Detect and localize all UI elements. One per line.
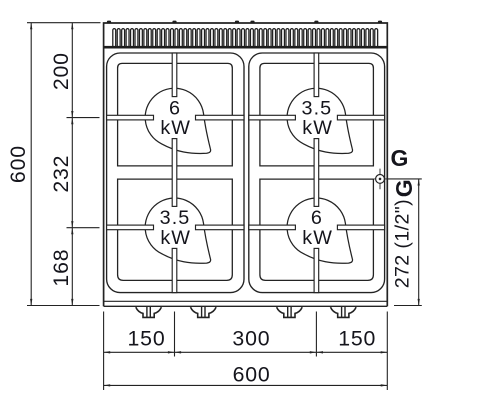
svg-text:150: 150 xyxy=(338,326,376,350)
top-right inner frame xyxy=(260,63,374,165)
dimension line 272 right xyxy=(418,179,420,306)
right column support bar bottom xyxy=(314,248,319,292)
left column support bar middle xyxy=(172,139,177,207)
svg-text:272 (1/2"): 272 (1/2") xyxy=(392,199,414,288)
extension line bottom-left xyxy=(27,305,100,307)
extension line bottom at burner column right xyxy=(315,312,317,357)
mounting foot 1 xyxy=(136,307,162,317)
mounting foot 2 xyxy=(191,307,217,317)
extension line left at burner row 1 xyxy=(67,117,100,119)
svg-text:168: 168 xyxy=(49,249,73,287)
svg-text:150: 150 xyxy=(128,326,166,350)
bottom row support bar left-outer xyxy=(107,225,154,230)
top row support bar right-outer xyxy=(337,115,384,120)
mounting foot 3 xyxy=(277,307,303,317)
right column support bar middle xyxy=(314,139,319,207)
extension line bottom at burner column left xyxy=(174,312,176,357)
gas connection point G xyxy=(371,169,390,190)
extension line right at gas point xyxy=(387,178,422,180)
svg-text:G: G xyxy=(391,145,409,171)
extension line top-left xyxy=(27,22,101,24)
burner 6 kW top-left head xyxy=(145,88,210,153)
svg-text:kW: kW xyxy=(160,227,191,249)
burner 3.5 kW bottom-left head xyxy=(145,198,210,263)
burner 3.5 kW top-right head xyxy=(287,88,352,153)
svg-text:kW: kW xyxy=(160,117,191,139)
dimension line 200/232/168 left xyxy=(71,23,73,306)
bottom row support bar right-inner xyxy=(249,225,296,230)
vent comb strip ribs xyxy=(113,29,378,48)
extension line right at body bottom xyxy=(394,305,422,307)
svg-text:6: 6 xyxy=(311,207,323,229)
mounting foot 4 xyxy=(331,307,357,317)
vent strip bottom rail xyxy=(104,46,388,49)
svg-text:600: 600 xyxy=(233,362,271,386)
right column support bar top xyxy=(314,53,319,97)
dimension line 600 bottom xyxy=(104,384,388,386)
svg-text:200: 200 xyxy=(49,52,73,90)
extension line bottom at x=103.6 xyxy=(103,312,105,391)
top edge rivets xyxy=(107,21,382,24)
dimension line 600 left xyxy=(30,23,32,306)
body bottom edge line xyxy=(104,300,388,302)
svg-text:kW: kW xyxy=(302,117,333,139)
left column support bar bottom xyxy=(172,248,177,292)
top row support bar right-inner xyxy=(249,115,296,120)
top-left inner frame xyxy=(118,63,233,165)
top row support bar left-inner xyxy=(196,115,245,120)
bottom row support bar right-outer xyxy=(337,225,384,230)
svg-text:kW: kW xyxy=(302,227,333,249)
svg-text:3.5: 3.5 xyxy=(301,97,332,119)
svg-text:3.5: 3.5 xyxy=(160,207,191,229)
hob body outline xyxy=(104,23,388,306)
left pan support frame xyxy=(107,53,244,293)
svg-text:G: G xyxy=(391,179,417,197)
left column support bar top xyxy=(172,53,177,97)
top row support bar left-outer xyxy=(107,115,154,120)
dimension line 150/300/150 xyxy=(104,351,388,353)
extension line bottom at x=387.3 xyxy=(386,312,388,391)
svg-text:6: 6 xyxy=(169,97,181,119)
body bottom rail line xyxy=(104,305,388,307)
bottom-right inner frame xyxy=(260,179,374,280)
svg-text:300: 300 xyxy=(232,326,270,350)
svg-text:232: 232 xyxy=(49,155,73,193)
burner 6 kW bottom-right head xyxy=(287,198,352,263)
svg-text:600: 600 xyxy=(6,145,30,183)
bottom-left inner frame xyxy=(118,179,233,280)
extension line left at burner row 2 xyxy=(67,227,100,229)
right pan support frame xyxy=(249,53,385,293)
bottom row support bar left-inner xyxy=(196,225,245,230)
